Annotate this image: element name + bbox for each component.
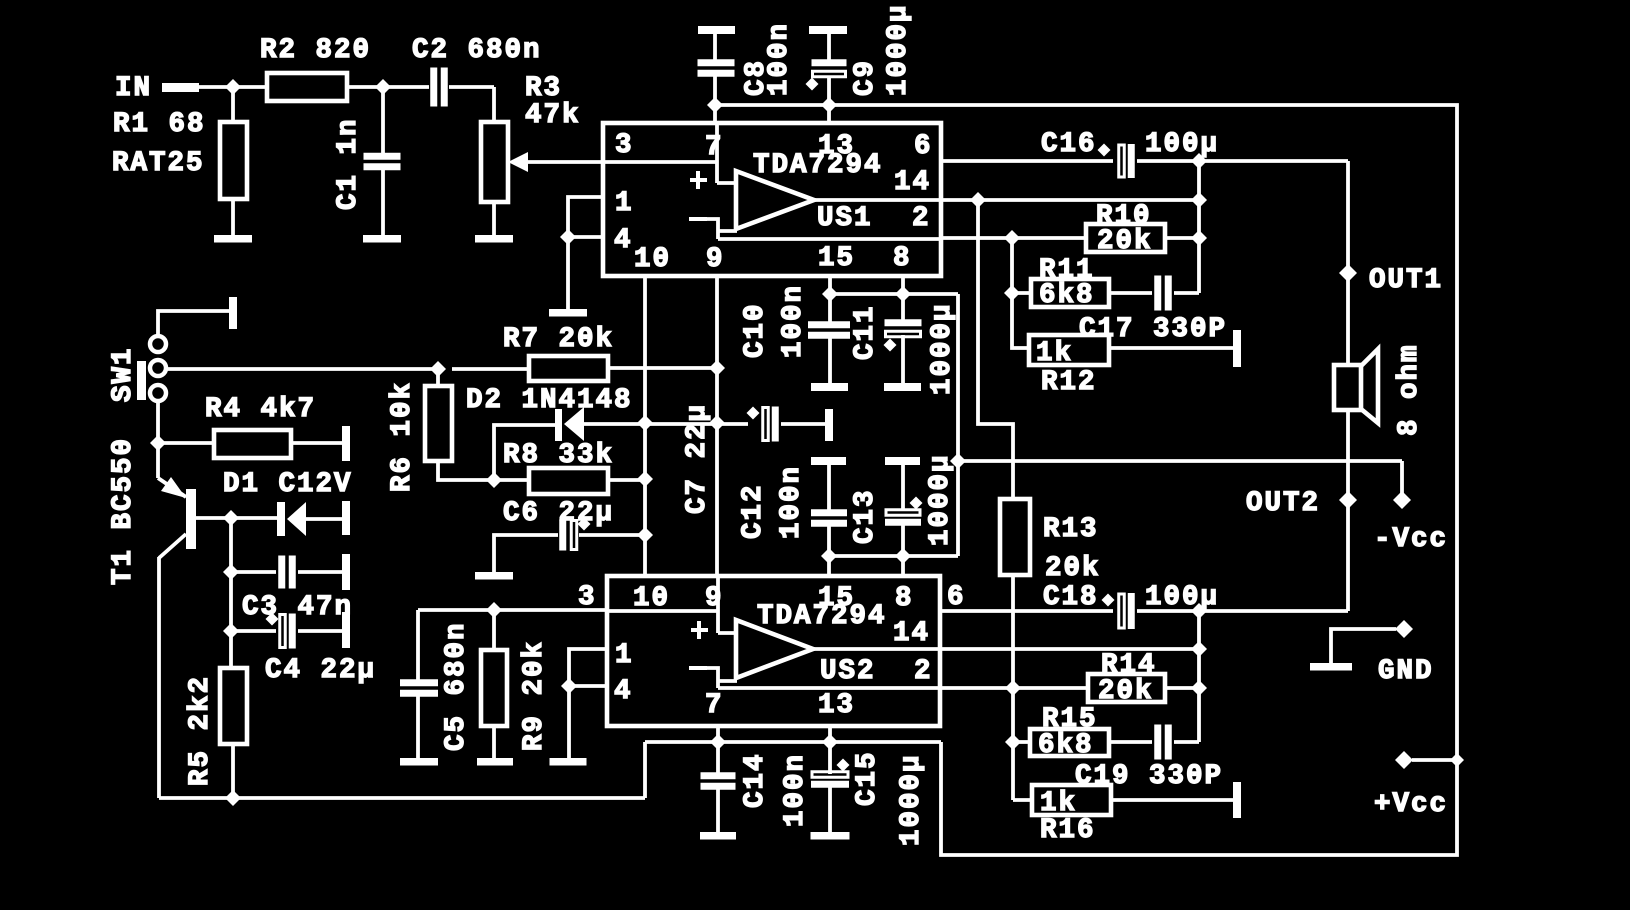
svg-text:C12: C12	[738, 483, 769, 539]
svg-text:9: 9	[705, 583, 724, 614]
svg-text:C11: C11	[850, 304, 881, 360]
svg-text:100µ: 100µ	[1145, 582, 1219, 613]
svg-text:1000µ: 1000µ	[925, 453, 956, 546]
svg-text:100µ: 100µ	[1145, 129, 1219, 160]
svg-text:IN: IN	[115, 73, 152, 104]
svg-text:R4 4k7: R4 4k7	[205, 394, 316, 425]
svg-text:C15: C15	[852, 750, 883, 806]
svg-text:-Vcc: -Vcc	[1374, 524, 1448, 555]
svg-text:C14: C14	[740, 752, 771, 808]
svg-text:1k: 1k	[1036, 338, 1073, 369]
svg-text:R15: R15	[1042, 704, 1098, 735]
svg-text:R14: R14	[1101, 650, 1157, 681]
svg-text:R12: R12	[1041, 367, 1097, 398]
svg-text:1000µ: 1000µ	[927, 302, 958, 395]
svg-text:R11: R11	[1039, 255, 1095, 286]
svg-text:C2 680n: C2 680n	[412, 35, 542, 66]
svg-text:TDA7294: TDA7294	[753, 150, 883, 181]
svg-text:1000µ: 1000µ	[883, 3, 914, 96]
svg-text:100n: 100n	[764, 22, 795, 96]
svg-text:C6 22µ: C6 22µ	[503, 498, 614, 529]
svg-text:R6 10k: R6 10k	[387, 381, 418, 492]
svg-text:SW1: SW1	[108, 346, 139, 402]
svg-text:C4 22µ: C4 22µ	[265, 655, 376, 686]
svg-text:R10: R10	[1096, 201, 1152, 232]
svg-text:T1 BC550: T1 BC550	[108, 437, 139, 585]
svg-text:C3 47n: C3 47n	[242, 592, 353, 623]
svg-text:9: 9	[706, 244, 725, 275]
svg-text:4: 4	[614, 676, 633, 707]
svg-text:C7 22µ: C7 22µ	[682, 403, 713, 514]
svg-text:7: 7	[705, 132, 724, 163]
svg-text:C10: C10	[740, 302, 771, 358]
svg-text:D2 1N4148: D2 1N4148	[466, 385, 633, 416]
svg-text:47k: 47k	[525, 100, 581, 131]
svg-text:C19 330P: C19 330P	[1075, 761, 1223, 792]
svg-text:R5 2k2: R5 2k2	[185, 675, 216, 786]
svg-text:OUT2: OUT2	[1246, 488, 1320, 519]
svg-text:US1: US1	[817, 203, 873, 234]
svg-text:100n: 100n	[780, 753, 811, 827]
svg-text:1000µ: 1000µ	[896, 753, 927, 846]
svg-text:R1 68: R1 68	[113, 109, 206, 140]
svg-text:3: 3	[615, 130, 634, 161]
svg-text:6: 6	[914, 131, 933, 162]
svg-text:2: 2	[914, 656, 933, 687]
svg-text:10: 10	[634, 244, 671, 275]
svg-text:D1 C12V: D1 C12V	[223, 469, 353, 500]
svg-text:20k: 20k	[1045, 553, 1101, 584]
svg-text:1: 1	[615, 188, 634, 219]
svg-text:R16: R16	[1040, 815, 1096, 846]
svg-text:C9: C9	[850, 59, 881, 96]
svg-text:6: 6	[947, 582, 966, 613]
svg-text:GND: GND	[1378, 656, 1434, 687]
svg-text:1: 1	[615, 640, 634, 671]
svg-text:R9 20k: R9 20k	[519, 640, 550, 751]
svg-text:C5 680n: C5 680n	[441, 621, 472, 751]
svg-text:10: 10	[633, 583, 670, 614]
svg-text:8: 8	[893, 243, 912, 274]
svg-text:R2 820: R2 820	[260, 35, 371, 66]
svg-text:7: 7	[705, 690, 724, 721]
svg-text:13: 13	[818, 690, 855, 721]
svg-text:R8 33k: R8 33k	[503, 440, 614, 471]
svg-text:R7 20k: R7 20k	[503, 324, 614, 355]
svg-text:R13: R13	[1043, 514, 1099, 545]
svg-text:TDA7294: TDA7294	[757, 601, 887, 632]
svg-text:15: 15	[818, 243, 855, 274]
svg-text:8: 8	[895, 583, 914, 614]
svg-text:100n: 100n	[778, 284, 809, 358]
svg-text:RAT25: RAT25	[112, 148, 205, 179]
svg-text:100n: 100n	[776, 465, 807, 539]
svg-text:OUT1: OUT1	[1369, 265, 1443, 296]
svg-text:C18: C18	[1043, 582, 1099, 613]
svg-text:US2: US2	[820, 656, 876, 687]
svg-text:8 ohm: 8 ohm	[1394, 343, 1425, 436]
svg-text:C17 330P: C17 330P	[1079, 314, 1227, 345]
svg-text:+Vcc: +Vcc	[1374, 789, 1448, 820]
svg-text:14: 14	[894, 167, 931, 198]
svg-text:4: 4	[614, 225, 633, 256]
svg-text:2: 2	[912, 203, 931, 234]
svg-text:C1 1n: C1 1n	[333, 117, 364, 210]
svg-text:C13: C13	[850, 488, 881, 544]
svg-text:14: 14	[893, 618, 930, 649]
svg-text:C16: C16	[1041, 129, 1097, 160]
